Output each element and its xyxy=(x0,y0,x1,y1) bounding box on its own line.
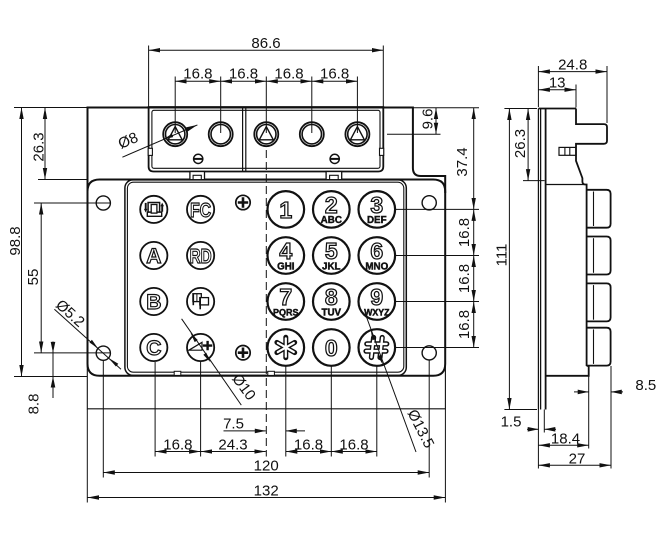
svg-text:MNO: MNO xyxy=(365,261,388,272)
svg-text:18.4: 18.4 xyxy=(551,430,580,447)
svg-text:1: 1 xyxy=(279,197,292,223)
svg-text:JKL: JKL xyxy=(322,261,341,272)
svg-text:7: 7 xyxy=(279,284,292,310)
svg-text:16.8: 16.8 xyxy=(229,65,258,82)
svg-text:132: 132 xyxy=(254,483,279,500)
svg-text:16.8: 16.8 xyxy=(456,264,473,293)
svg-text:27: 27 xyxy=(569,450,586,467)
svg-text:5: 5 xyxy=(325,238,338,264)
svg-text:6: 6 xyxy=(370,238,383,264)
svg-text:120: 120 xyxy=(254,458,279,475)
svg-text:2: 2 xyxy=(325,192,338,218)
svg-text:16.8: 16.8 xyxy=(456,310,473,339)
svg-text:4: 4 xyxy=(279,238,292,264)
svg-text:16.8: 16.8 xyxy=(456,218,473,247)
svg-text:ABC: ABC xyxy=(321,215,342,226)
svg-text:16.8: 16.8 xyxy=(274,65,303,82)
svg-text:8: 8 xyxy=(325,284,338,310)
svg-text:26.3: 26.3 xyxy=(512,129,529,158)
svg-text:16.8: 16.8 xyxy=(294,437,323,454)
svg-text:9.6: 9.6 xyxy=(420,109,437,130)
svg-text:GHI: GHI xyxy=(277,261,295,272)
svg-text:16.8: 16.8 xyxy=(339,437,368,454)
svg-text:C: C xyxy=(146,337,161,360)
svg-text:24.8: 24.8 xyxy=(558,57,587,74)
svg-text:37.4: 37.4 xyxy=(454,147,471,176)
svg-text:26.3: 26.3 xyxy=(31,132,48,161)
svg-text:FC: FC xyxy=(190,200,211,222)
svg-text:55: 55 xyxy=(25,269,42,286)
svg-text:8.8: 8.8 xyxy=(26,394,43,415)
svg-text:16.8: 16.8 xyxy=(320,65,349,82)
svg-text:RD: RD xyxy=(190,246,212,268)
svg-text:3: 3 xyxy=(370,192,383,218)
svg-text:7.5: 7.5 xyxy=(223,416,244,433)
svg-text:16.8: 16.8 xyxy=(163,437,192,454)
svg-text:13: 13 xyxy=(549,75,566,92)
svg-text:1.5: 1.5 xyxy=(501,414,522,431)
svg-text:DEF: DEF xyxy=(367,215,387,226)
svg-text:B: B xyxy=(146,291,161,314)
svg-text:PQRS: PQRS xyxy=(273,307,299,317)
svg-text:TUV: TUV xyxy=(321,307,341,318)
svg-text:A: A xyxy=(146,245,161,268)
svg-text:86.6: 86.6 xyxy=(251,35,280,52)
svg-text:WXYZ: WXYZ xyxy=(364,307,390,317)
svg-text:9: 9 xyxy=(370,284,383,310)
svg-text:111: 111 xyxy=(494,244,511,267)
svg-text:24.3: 24.3 xyxy=(218,437,247,454)
svg-text:98.8: 98.8 xyxy=(7,226,24,255)
svg-text:8.5: 8.5 xyxy=(635,377,656,394)
svg-text:0: 0 xyxy=(325,335,338,361)
svg-text:16.8: 16.8 xyxy=(183,65,212,82)
